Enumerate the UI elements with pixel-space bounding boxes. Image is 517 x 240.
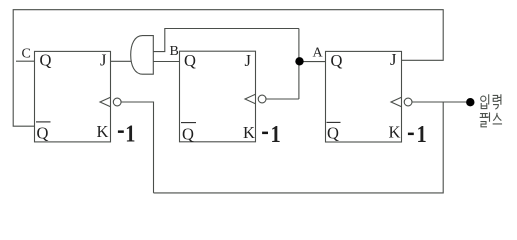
svg-text:J: J	[245, 51, 252, 70]
wire C output stub	[16, 60, 35, 62]
overbar Q̄ FF-B	[181, 122, 196, 124]
svg-text:1: 1	[417, 121, 427, 148]
input pulse terminal dot	[466, 98, 474, 106]
wire gate top input from node A	[153, 29, 299, 52]
wire bottom rail	[154, 102, 444, 193]
clock bubble FF-B	[258, 95, 266, 103]
력	[493, 95, 498, 101]
label -1 FF-B	[262, 121, 281, 148]
overbar Q̄ FF-C	[36, 121, 51, 123]
wire node A vertical	[298, 29, 300, 100]
wire input pulse to clock FF-A	[412, 101, 467, 103]
label -1 FF-A	[408, 121, 427, 148]
wire clock FF-C to bottom rail	[122, 102, 154, 193]
wire node A to clock of FF-B	[266, 98, 299, 100]
펄	[480, 114, 487, 118]
clock bubble FF-C	[113, 98, 121, 106]
clock triangle FF-A	[391, 97, 402, 107]
flip-flop FF-B box	[180, 51, 256, 142]
svg-text:C: C	[22, 47, 31, 62]
스	[493, 113, 501, 124]
svg-text:Q: Q	[331, 51, 343, 70]
svg-text:Q: Q	[37, 124, 49, 143]
clock bubble FF-A	[404, 98, 412, 106]
svg-text:K: K	[389, 123, 401, 142]
svg-text:1: 1	[125, 120, 135, 147]
svg-text:J: J	[390, 50, 397, 69]
label 입력 펄스 (input pulse, drawn as paths)	[480, 95, 501, 127]
svg-text:J: J	[100, 51, 107, 70]
svg-text:K: K	[243, 123, 255, 142]
flip-flop FF-A box	[326, 51, 402, 142]
wire QA to node A	[299, 61, 326, 63]
svg-text:Q: Q	[327, 124, 339, 143]
svg-text:A: A	[313, 46, 324, 61]
svg-text:Q: Q	[182, 125, 194, 144]
svg-text:1: 1	[271, 121, 281, 148]
wire gate lower input / QB stub	[153, 61, 179, 63]
svg-text:Q: Q	[40, 51, 52, 70]
svg-text:Q: Q	[184, 51, 196, 70]
label -1 FF-C	[118, 120, 136, 147]
and-gate U1	[131, 36, 154, 75]
flip-flop FF-C box	[35, 51, 111, 141]
wire gate output to J of FF-C	[111, 60, 132, 62]
clock triangle FF-C	[100, 97, 111, 107]
입	[481, 96, 486, 101]
node A junction dot	[295, 57, 303, 65]
svg-text:K: K	[97, 122, 109, 141]
clock triangle FF-B	[245, 94, 256, 104]
wire top feedback Q̄C to JA	[13, 10, 443, 127]
overbar Q̄ FF-A	[327, 121, 341, 123]
svg-text:B: B	[170, 44, 179, 59]
